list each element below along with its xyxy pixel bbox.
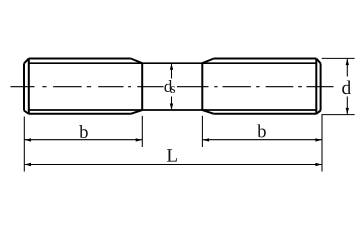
left chamfer boundary xyxy=(28,59,30,114)
label d (right) xyxy=(342,80,351,94)
major diameter top line, left thread xyxy=(29,58,131,60)
label b (right) xyxy=(257,124,266,137)
arrowhead right b right xyxy=(315,138,321,141)
center line (dash-dot axis) xyxy=(11,86,334,88)
ds dimension line lower segment xyxy=(171,97,173,111)
chamfer slant bottom-left xyxy=(24,111,29,114)
L dimension line xyxy=(24,164,322,166)
thread run-out slant bottom-right xyxy=(202,110,214,114)
label L xyxy=(167,149,177,161)
arrowhead ds bottom xyxy=(170,104,173,110)
left b / L shared left extension line xyxy=(23,117,25,172)
left b dimension line xyxy=(24,139,142,141)
left thread end vertical xyxy=(141,63,143,110)
thread run-out slant top-left xyxy=(131,59,142,64)
label b (left) xyxy=(79,125,88,138)
chamfer slant top-left xyxy=(24,59,29,64)
thread run-out slant bottom-left xyxy=(131,110,142,114)
major diameter bottom line, left thread xyxy=(29,113,131,115)
d dimension line lower segment xyxy=(346,97,348,115)
minor diameter / shank top line xyxy=(29,62,317,64)
major diameter top line, right thread xyxy=(214,58,316,60)
minor diameter / shank bottom line xyxy=(29,109,317,111)
right end face xyxy=(320,63,322,110)
d dimension extension line bottom xyxy=(322,114,355,116)
left b right extension line xyxy=(141,116,143,147)
right chamfer boundary xyxy=(315,59,317,114)
label ds: subscript s xyxy=(171,86,175,93)
chamfer slant bottom-right xyxy=(316,111,320,114)
thread run-out slant top-right xyxy=(202,59,214,64)
ds dimension line upper segment xyxy=(171,63,173,78)
arrowhead right b left xyxy=(203,138,209,141)
label ds: letter d xyxy=(164,80,172,92)
right thread end vertical xyxy=(201,63,203,110)
chamfer slant top-right xyxy=(316,59,320,64)
right b left extension line xyxy=(201,116,203,147)
arrowhead d bottom xyxy=(346,108,349,114)
d dimension extension line top xyxy=(322,57,355,59)
arrowhead left b left xyxy=(25,138,31,141)
major diameter bottom line, right thread xyxy=(214,113,316,115)
right b / L shared right extension line xyxy=(321,115,323,172)
arrowhead L left xyxy=(25,163,31,166)
arrowhead L right xyxy=(315,163,321,166)
left end face xyxy=(23,63,25,110)
arrowhead ds top xyxy=(170,64,173,70)
right b dimension line xyxy=(202,139,322,141)
arrowhead d top xyxy=(346,59,349,65)
d dimension line upper segment xyxy=(346,58,348,76)
arrowhead left b right xyxy=(136,138,142,141)
